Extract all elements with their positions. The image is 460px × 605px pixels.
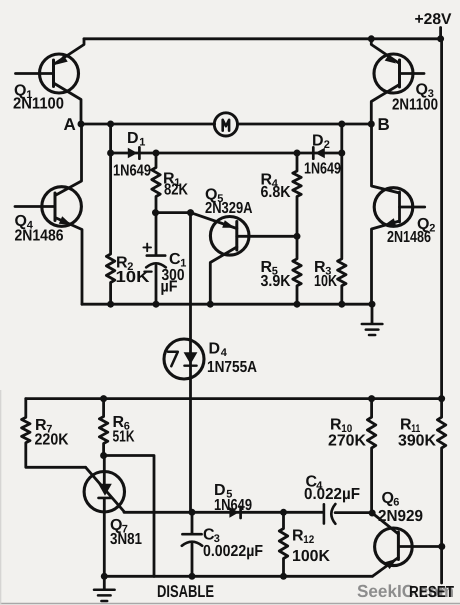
svg-text:4: 4 [221,347,228,359]
svg-text:B: B [378,115,390,134]
svg-text:12: 12 [303,534,314,546]
svg-text:1N649: 1N649 [113,163,151,180]
svg-text:2N929: 2N929 [378,508,423,525]
svg-text:Q: Q [382,490,394,507]
svg-text:1N649: 1N649 [304,161,341,178]
svg-text:6: 6 [393,497,399,509]
svg-text:2N329A: 2N329A [205,200,253,217]
svg-text:2N1100: 2N1100 [392,97,438,114]
svg-text:0.022µF: 0.022µF [304,486,360,503]
svg-text:1: 1 [139,137,145,149]
svg-text:DISABLE: DISABLE [157,582,214,601]
svg-text:R: R [400,417,412,434]
svg-text:82K: 82K [164,182,188,199]
svg-text:2N1486: 2N1486 [15,228,64,245]
svg-text:2N1100: 2N1100 [13,96,64,113]
svg-text:390K: 390K [398,433,436,450]
svg-text:R: R [330,417,342,434]
svg-text:2N1486: 2N1486 [387,229,431,246]
svg-text:220K: 220K [35,432,69,449]
svg-text:µF: µF [161,279,178,296]
svg-text:270K: 270K [328,433,366,450]
svg-text:3.9K: 3.9K [261,273,291,290]
svg-text:0.0022µF: 0.0022µF [203,543,263,560]
svg-text:1N755A: 1N755A [207,359,257,376]
svg-text:6.8K: 6.8K [261,184,291,201]
svg-text:R: R [292,528,304,545]
svg-text:51K: 51K [113,429,135,446]
svg-text:100K: 100K [292,548,330,565]
svg-text:10K: 10K [314,273,337,290]
svg-text:D: D [209,341,221,358]
svg-text:10K: 10K [116,269,151,286]
svg-text:2: 2 [324,139,330,151]
svg-text:1N649: 1N649 [214,497,252,514]
svg-text:RESET: RESET [409,584,454,601]
svg-text:D: D [312,133,324,150]
svg-text:A: A [64,115,76,134]
svg-text:3N81: 3N81 [110,531,142,548]
svg-text:+28V: +28V [415,11,453,28]
svg-text:C: C [169,251,181,268]
svg-text:D: D [127,130,139,147]
